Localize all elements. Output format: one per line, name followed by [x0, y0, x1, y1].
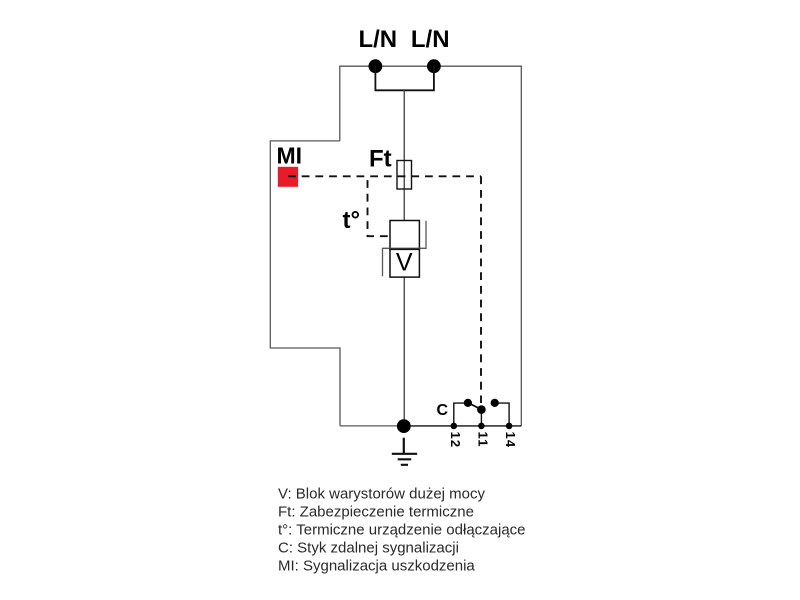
svg-text:V: Blok warystorów dużej mocy: V: Blok warystorów dużej mocy [278, 486, 486, 503]
svg-text:L/N: L/N [411, 26, 450, 53]
wire bracket from terminals [375, 66, 434, 90]
svg-text:Ft: Ft [369, 146, 392, 173]
terminal dot 14 [506, 423, 513, 430]
indicator MI red square [278, 167, 298, 187]
svg-text:12: 12 [448, 432, 463, 449]
thermal disconnect device t-degree [390, 221, 419, 250]
terminal L/N right [427, 59, 441, 73]
contact C blade [467, 402, 484, 411]
svg-text:V: V [396, 249, 413, 277]
svg-text:14: 14 [503, 432, 518, 449]
svg-text:11: 11 [475, 432, 490, 448]
wire bottom left gray [340, 425, 404, 427]
varistor stack shadow lines [383, 221, 427, 276]
junction node [397, 419, 411, 433]
wire terminal 12 stub [454, 403, 468, 426]
wire main vertical lower [403, 277, 405, 426]
contact dot right [491, 399, 499, 407]
svg-text:Ft: Zabezpieczenie termiczne: Ft: Zabezpieczenie termiczne [278, 504, 474, 521]
svg-text:C: C [437, 402, 449, 419]
contact pivot dot [477, 405, 486, 414]
terminal dot 11 [478, 423, 485, 430]
terminal L/N left [369, 59, 383, 73]
ground [392, 438, 417, 465]
svg-text:C: Styk zdalnej sygnalizacji: C: Styk zdalnej sygnalizacji [278, 540, 459, 557]
wire bottom to right outline [404, 425, 521, 427]
varistor block V [390, 249, 419, 277]
svg-text:t°: Termiczne urządzenie odłąc: t°: Termiczne urządzenie odłączające [278, 522, 526, 539]
enclosure outline [270, 66, 521, 426]
svg-text:MI: MI [277, 143, 303, 169]
wire terminal 11 stub [480, 410, 482, 426]
dashed signal line horizontal MI to C [288, 175, 481, 177]
dashed signal line vertical to contact C [480, 176, 482, 403]
terminal dot 12 [451, 423, 458, 430]
contact dot left [464, 399, 472, 407]
svg-text:MI: Sygnalizacja uszkodzenia: MI: Sygnalizacja uszkodzenia [278, 558, 475, 575]
fuse Ft [397, 161, 412, 190]
dashed signal line branch to t-degree device [368, 176, 391, 236]
wire main vertical upper [403, 90, 405, 220]
svg-text:L/N: L/N [358, 26, 397, 53]
wire terminal 14 stub [495, 403, 509, 426]
svg-text:t°: t° [343, 207, 361, 234]
